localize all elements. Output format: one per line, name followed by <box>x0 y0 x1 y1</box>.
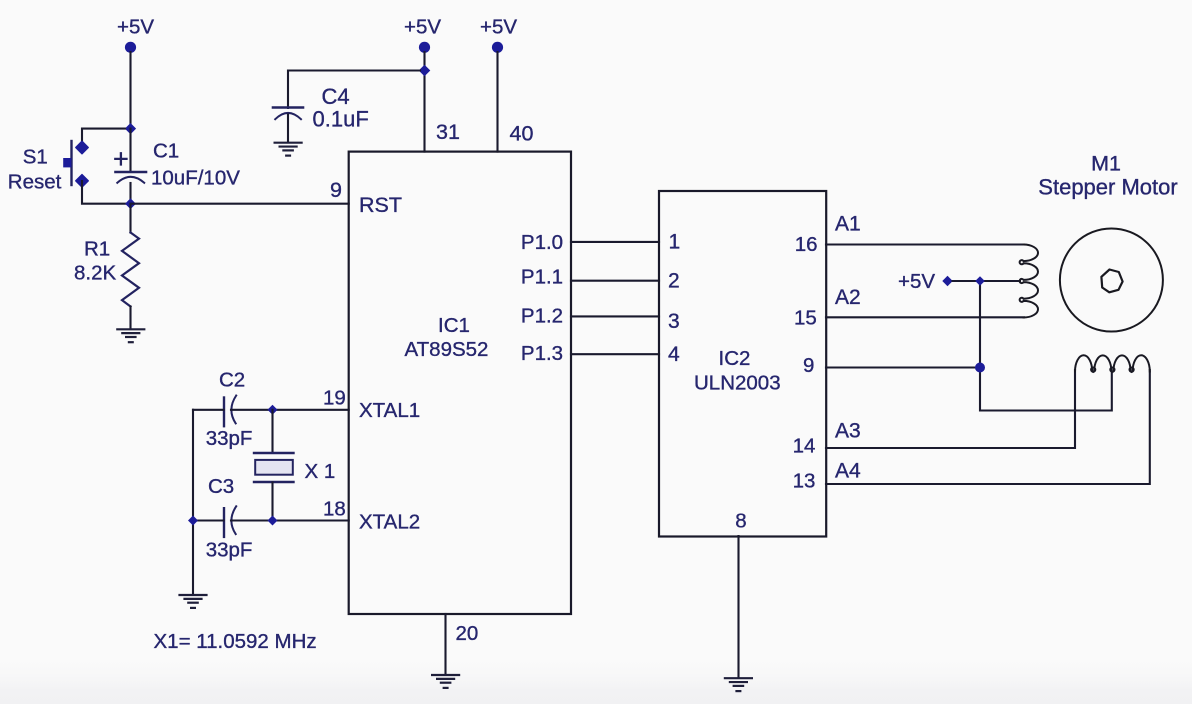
junction XTAL1/crystal <box>268 405 278 415</box>
svg-text:C2: C2 <box>219 369 245 392</box>
svg-text:A1: A1 <box>835 213 861 236</box>
wire +5V down to IC1 pin 40 <box>496 52 498 152</box>
svg-text:IC1: IC1 <box>438 314 470 337</box>
svg-text:33pF: 33pF <box>206 427 253 450</box>
wire switch bottom to RST junction <box>82 181 126 204</box>
svg-text:X1= 11.0592 MHz: X1= 11.0592 MHz <box>154 630 317 653</box>
node +5V (pin 40 branch) <box>480 15 517 53</box>
wire pin9 to +5V junction <box>826 366 980 368</box>
junction +5V tap <box>975 276 985 286</box>
wire +5V down to IC1 pin 31 <box>423 52 425 152</box>
svg-text:3: 3 <box>668 310 680 333</box>
wire IC1 pin 20 to ground <box>444 614 446 674</box>
svg-text:X 1: X 1 <box>305 460 336 483</box>
wire C4 branch <box>288 71 420 109</box>
svg-text:10uF/10V: 10uF/10V <box>151 166 240 189</box>
svg-text:31: 31 <box>436 120 460 144</box>
svg-text:C3: C3 <box>208 475 234 498</box>
ground (R1) <box>117 329 144 342</box>
svg-text:0.1uF: 0.1uF <box>313 107 369 132</box>
wire RST node to IC1 pin 9 <box>131 203 349 205</box>
svg-text:Stepper Motor: Stepper Motor <box>1038 175 1177 200</box>
svg-text:8.2K: 8.2K <box>74 262 116 285</box>
svg-text:XTAL2: XTAL2 <box>359 511 420 534</box>
svg-text:9: 9 <box>803 354 814 377</box>
capacitor C2 <box>206 369 253 450</box>
junction C4 branch <box>419 65 431 77</box>
junction rail/XTAL2 <box>188 516 198 526</box>
svg-text:18: 18 <box>323 498 346 521</box>
svg-text:4: 4 <box>668 343 680 366</box>
svg-text:S1: S1 <box>23 145 48 168</box>
svg-text:1: 1 <box>669 231 681 254</box>
junction XTAL2/crystal <box>268 516 278 526</box>
junction RST node <box>125 198 136 209</box>
svg-text:8: 8 <box>735 510 746 533</box>
driver IC2 ULN2003 body <box>659 191 826 537</box>
ground (IC1 pin 20) <box>432 675 459 688</box>
svg-text:P1.0: P1.0 <box>521 231 563 254</box>
svg-text:P1.1: P1.1 <box>521 266 563 289</box>
svg-text:33pF: 33pF <box>206 538 253 561</box>
svg-text:+5V: +5V <box>404 15 441 38</box>
wire +5V to reset junction <box>129 52 131 127</box>
ground (crystal rail) <box>180 595 207 608</box>
motor M1 shaft <box>1101 270 1122 293</box>
inductor coil A3/A4 (horizontal) <box>1075 355 1150 371</box>
svg-text:20: 20 <box>456 622 479 645</box>
wire P1.1 to IC2 pin 2 <box>571 280 659 282</box>
svg-text:2: 2 <box>668 270 680 293</box>
switch S1 <box>8 141 88 193</box>
svg-text:C4: C4 <box>322 84 350 109</box>
svg-text:40: 40 <box>510 122 534 146</box>
svg-text:15: 15 <box>794 307 817 330</box>
wire XTAL2 <box>193 519 349 521</box>
motor M1 labels <box>1038 152 1177 200</box>
junction top of S1/C1 <box>125 123 136 134</box>
svg-text:C1: C1 <box>153 139 179 162</box>
inductor coil A1/A2 (vertical) <box>1020 245 1038 318</box>
wire +5V to coil centre taps <box>953 281 1112 411</box>
crystal X1 <box>254 410 335 521</box>
wire pin13 to coil A4 <box>826 370 1150 484</box>
svg-text:13: 13 <box>793 469 816 492</box>
svg-text:+5V: +5V <box>480 15 517 38</box>
svg-text:P1.3: P1.3 <box>521 342 563 365</box>
ground (IC2 pin 8) <box>725 678 752 691</box>
svg-text:R1: R1 <box>84 237 110 260</box>
left rail wire <box>192 410 194 594</box>
svg-text:+5V: +5V <box>117 15 154 38</box>
wire pin15 to motor coil A2 <box>826 316 1024 318</box>
wire P1.2 to IC2 pin 3 <box>571 315 659 317</box>
microcontroller IC1 AT89S52 body <box>349 152 571 614</box>
svg-text:P1.2: P1.2 <box>521 304 563 327</box>
svg-text:XTAL1: XTAL1 <box>359 399 420 422</box>
resistor R1 <box>74 204 139 329</box>
capacitor C4 <box>273 84 369 142</box>
svg-text:9: 9 <box>330 178 342 202</box>
wire P1.3 to IC2 pin 4 <box>571 353 659 355</box>
svg-text:A2: A2 <box>835 286 861 309</box>
svg-text:IC2: IC2 <box>719 347 751 370</box>
node +5V (motor common) <box>898 270 953 293</box>
svg-text:M1: M1 <box>1091 152 1121 176</box>
svg-text:Reset: Reset <box>8 170 62 193</box>
svg-text:+5V: +5V <box>898 270 935 293</box>
svg-text:14: 14 <box>793 435 816 458</box>
svg-text:ULN2003: ULN2003 <box>694 372 781 395</box>
motor M1 body <box>1060 229 1163 332</box>
junction pin9/+5V <box>975 363 985 373</box>
wire IC2 pin 8 to ground <box>737 536 739 677</box>
wire junction to switch top <box>82 129 125 146</box>
svg-text:AT89S52: AT89S52 <box>405 338 489 361</box>
capacitor C1 <box>115 129 240 204</box>
svg-text:RST: RST <box>359 193 402 217</box>
node +5V (reset branch) <box>117 15 154 53</box>
wire pin14 to coil A3 <box>826 370 1075 448</box>
ground (C4) <box>275 143 302 156</box>
svg-text:A3: A3 <box>835 420 861 443</box>
wire pin16 to motor coil A1 <box>826 243 1024 245</box>
capacitor C3 <box>206 475 253 561</box>
svg-text:19: 19 <box>323 386 346 409</box>
node +5V (pin 31 branch) <box>404 15 441 53</box>
wire XTAL1 <box>193 409 349 411</box>
wire P1.0 to IC2 pin 1 <box>571 241 659 243</box>
svg-text:16: 16 <box>795 233 818 256</box>
svg-text:A4: A4 <box>835 460 861 483</box>
